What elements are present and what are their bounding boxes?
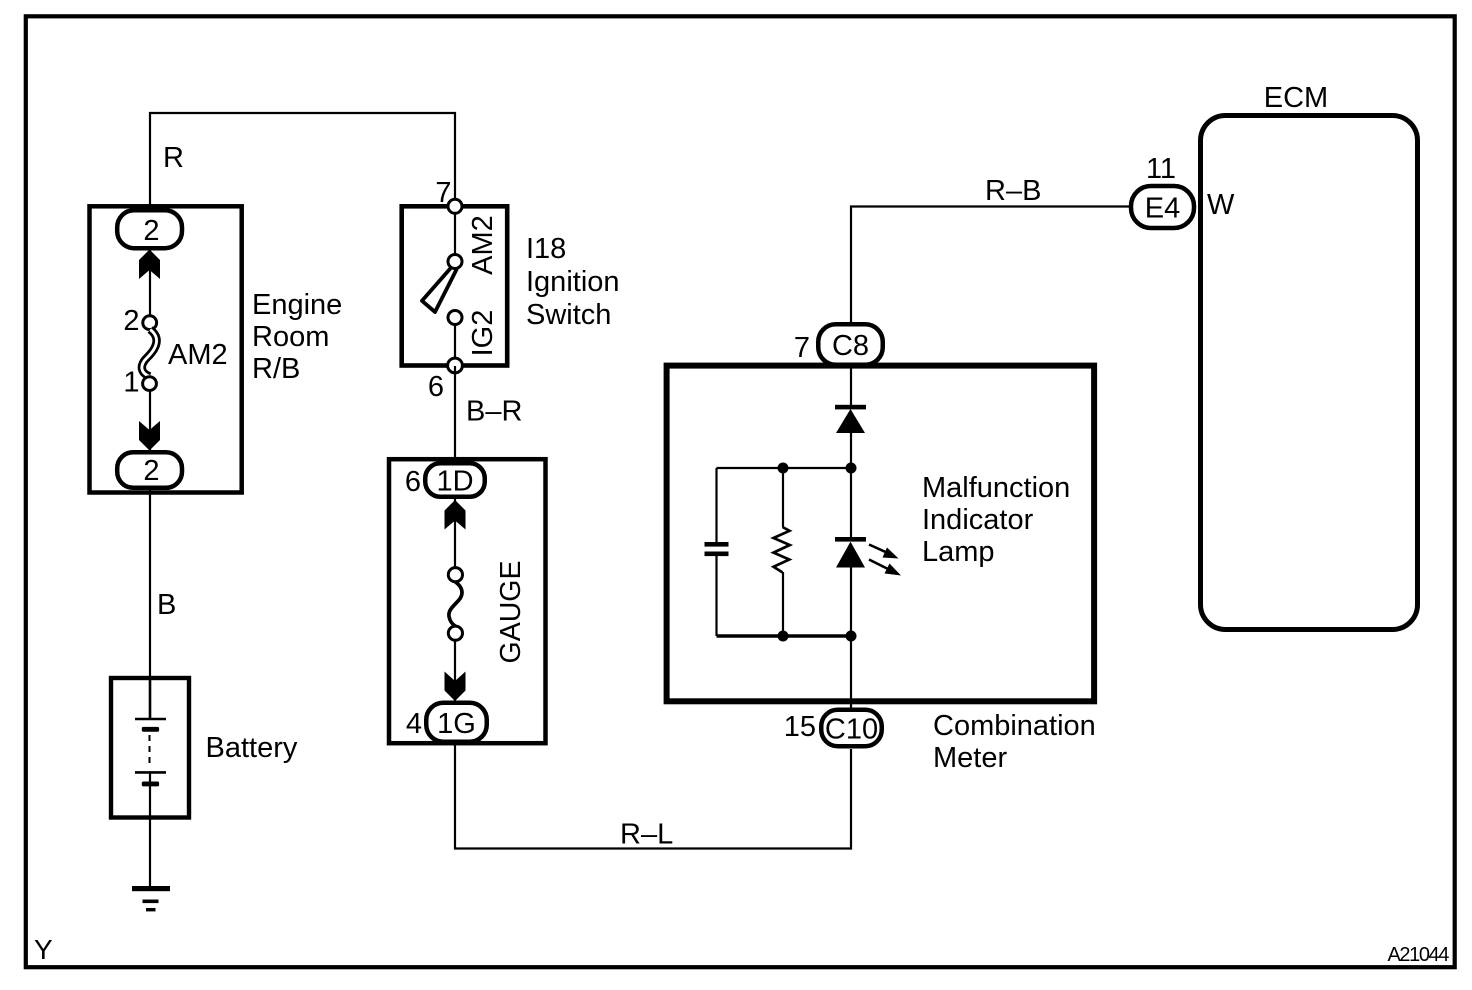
capacitor C1 (705, 542, 729, 556)
svg-text:Ignition: Ignition (526, 266, 620, 298)
junction dot (846, 463, 857, 474)
wire resistor branch lower (782, 572, 784, 636)
switch terminal pin 6 (448, 358, 463, 373)
svg-text:1D: 1D (436, 466, 473, 498)
gauge fuse element (449, 582, 462, 626)
gauge fuse bottom pin (448, 626, 462, 640)
svg-text:AM2: AM2 (168, 339, 228, 371)
battery B1 symbol (135, 719, 166, 786)
svg-text:6: 6 (428, 371, 444, 403)
svg-text:R–B: R–B (985, 175, 1041, 207)
wire inside Engine Room R/B (top) (149, 248, 151, 318)
wire bottom rail (717, 634, 852, 637)
svg-text:2: 2 (143, 215, 159, 247)
svg-text:4: 4 (406, 708, 422, 740)
svg-text:R/B: R/B (252, 353, 300, 385)
wire resistor branch upper (782, 468, 784, 527)
svg-text:IG2: IG2 (467, 310, 499, 357)
svg-text:Switch: Switch (526, 299, 611, 331)
LED (malfunction indicator lamp) (835, 537, 866, 568)
fuse AM2 pin 1 (143, 377, 157, 391)
fuse AM2 pin 2 (143, 316, 157, 330)
wire junction to LED (850, 468, 852, 538)
wire ignition internal lower (454, 317, 456, 366)
svg-text:Malfunction: Malfunction (922, 472, 1070, 504)
svg-text:C8: C8 (832, 330, 869, 362)
svg-text:15: 15 (784, 711, 816, 743)
svg-text:2: 2 (143, 455, 159, 487)
svg-text:Battery: Battery (206, 732, 298, 764)
combination meter box (667, 366, 1095, 702)
svg-text:C10: C10 (825, 714, 878, 746)
battery B1 box (111, 678, 189, 818)
wire top rail (717, 467, 852, 469)
wire gauge internal lower (454, 640, 456, 701)
switch lever (422, 266, 457, 312)
connector 1D oval (425, 463, 485, 497)
wire B-R: ignition to gauge fuse (454, 366, 456, 461)
svg-text:Engine: Engine (252, 289, 342, 321)
svg-text:B: B (157, 589, 176, 621)
svg-text:2: 2 (123, 305, 139, 337)
svg-text:1: 1 (123, 367, 139, 399)
connector C10 oval (821, 710, 882, 747)
connector E4 oval (1131, 186, 1194, 228)
junction dot (778, 631, 789, 642)
arrow up (current direction) (139, 250, 160, 280)
connector pin 2 oval (bottom) (117, 452, 182, 488)
GAUGE fuse box (389, 459, 546, 743)
connector pin 2 oval (top) (117, 210, 182, 248)
wire battery internal dashed (149, 735, 151, 768)
arrow up (gauge) (445, 500, 466, 530)
switch terminal IG2 (448, 311, 462, 325)
svg-text:Combination: Combination (933, 710, 1096, 742)
wire battery to ground (149, 773, 151, 887)
svg-text:W: W (1207, 189, 1235, 221)
wire R: battery feed from fuse to ignition switch (150, 113, 455, 208)
svg-text:R–L: R–L (620, 819, 673, 851)
svg-text:ECM: ECM (1264, 82, 1328, 114)
wire ignition internal upper (454, 206, 456, 262)
ignition switch I18 box (402, 206, 508, 365)
fuse AM2 element (142, 330, 157, 377)
svg-text:7: 7 (794, 332, 810, 364)
resistor R1 (774, 527, 790, 572)
svg-text:A21044: A21044 (1387, 944, 1449, 966)
switch terminal pin 7 (448, 199, 462, 213)
svg-text:GAUGE: GAUGE (495, 561, 527, 664)
svg-text:E4: E4 (1145, 193, 1180, 225)
svg-text:11: 11 (1146, 153, 1176, 185)
arrow down (gauge) (445, 672, 466, 702)
LED arrow 1 (869, 545, 899, 559)
arrow down (current direction) (139, 421, 160, 451)
gauge fuse top pin (448, 568, 462, 582)
diode D1 (835, 405, 866, 433)
svg-text:R: R (163, 142, 184, 174)
wire B: R/B to battery (149, 490, 151, 679)
svg-text:Indicator: Indicator (922, 504, 1034, 536)
wire LED to bottom junction (850, 567, 852, 636)
wire capacitor branch upper (715, 468, 717, 542)
ground (132, 886, 170, 911)
svg-text:Lamp: Lamp (922, 536, 995, 568)
svg-text:6: 6 (405, 466, 421, 498)
wire inside Engine Room R/B (bottom) (149, 389, 151, 452)
svg-text:AM2: AM2 (467, 215, 499, 275)
wire R-B: meter to ECM (851, 207, 1130, 323)
connector 1G oval (426, 703, 487, 742)
wire R-L: gauge fuse to combination meter (455, 744, 851, 849)
switch terminal AM2 (448, 255, 462, 269)
wire capacitor branch lower (715, 556, 717, 636)
junction dot (778, 463, 789, 474)
wire gauge internal upper (454, 499, 456, 568)
svg-text:Y: Y (34, 934, 53, 965)
svg-text:I18: I18 (526, 233, 566, 265)
svg-text:B–R: B–R (466, 396, 522, 428)
wire battery internal top (149, 679, 152, 719)
junction dot (846, 631, 857, 642)
wire bottom junction to C10 (850, 636, 852, 709)
LED arrow 2 (869, 560, 901, 576)
wire C8 to diode (850, 366, 852, 406)
wire diode to junction (850, 433, 852, 468)
Engine Room R/B box (90, 206, 242, 492)
svg-text:Meter: Meter (933, 742, 1007, 774)
connector C8 oval (818, 324, 883, 365)
svg-text:1G: 1G (437, 708, 476, 740)
svg-text:Room: Room (252, 321, 329, 353)
ECM box (1201, 116, 1418, 630)
